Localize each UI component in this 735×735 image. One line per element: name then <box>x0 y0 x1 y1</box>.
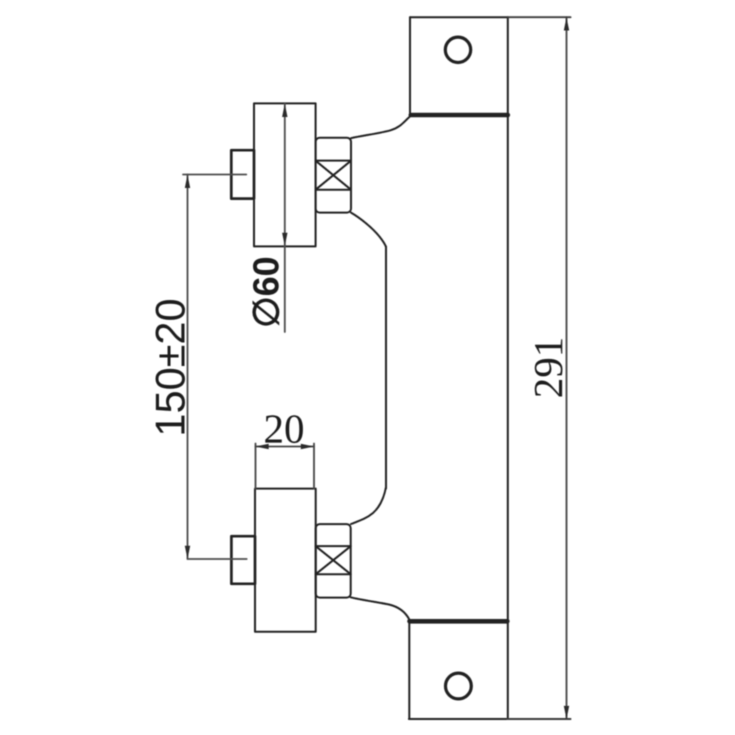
body curve plate to top union <box>351 116 411 138</box>
union nut bottom cross diagonal 1 <box>316 547 350 574</box>
dimension 150 bottom extension line <box>188 558 247 560</box>
wire right edge of bar <box>507 17 509 719</box>
dimension 150 top extension line <box>183 174 246 176</box>
dimension 291 arrow down <box>564 706 569 719</box>
union nut bottom divider upper <box>316 545 351 547</box>
handle cap top <box>231 150 254 198</box>
dimension 291 line <box>566 17 568 719</box>
dimension 150 arrow up <box>185 175 190 188</box>
wall plate bottom thick top line <box>410 619 508 624</box>
union nut top box <box>316 138 351 213</box>
dimension phi60 arrow up <box>282 104 287 117</box>
handle cap bottom <box>231 536 255 584</box>
svg-text:∅60: ∅60 <box>246 256 287 327</box>
dimension 20 right extension line <box>313 444 315 489</box>
dimension 20 arrow left <box>256 444 269 449</box>
union nut bottom box <box>316 524 351 598</box>
wire top edge of bar <box>410 16 508 18</box>
body curve bar to bottom union <box>351 487 386 524</box>
body curve bottom union to plate <box>351 597 410 620</box>
dimension phi60 line <box>284 104 286 332</box>
union nut top divider upper <box>316 160 351 162</box>
union nut top cross diagonal 2 <box>316 161 350 189</box>
screw hole top <box>445 37 470 62</box>
dimension 150 arrow down <box>185 546 190 559</box>
union nut bottom divider lower <box>316 573 351 575</box>
svg-text:291: 291 <box>525 337 571 399</box>
wire bar middle left edge <box>385 247 387 489</box>
dimension 20 left extension line <box>255 444 257 489</box>
dimension 291 arrow up <box>564 17 569 30</box>
wall plate top left edge <box>409 17 411 115</box>
union nut top divider lower <box>316 189 351 191</box>
svg-text:20: 20 <box>264 406 305 452</box>
handle knob top <box>254 103 316 246</box>
wall plate top thick bottom line <box>411 113 508 118</box>
union nut top cross diagonal 1 <box>316 161 350 189</box>
wall plate bottom left edge <box>408 620 410 719</box>
dimension 150 vertical line <box>187 175 189 560</box>
wire bottom edge of bar <box>409 718 508 720</box>
dimension 291 top extension line <box>508 16 571 18</box>
dimension 291 bottom extension line <box>507 718 570 720</box>
body curve top union to bar <box>351 213 386 247</box>
screw hole bottom <box>446 673 472 699</box>
dimension 20 line <box>256 446 315 448</box>
union nut bottom cross diagonal 2 <box>316 547 350 574</box>
svg-text:150±20: 150±20 <box>147 298 194 436</box>
dimension phi60 arrow down <box>282 233 287 246</box>
handle knob bottom <box>255 489 316 632</box>
dimension 20 arrow right <box>301 444 314 449</box>
